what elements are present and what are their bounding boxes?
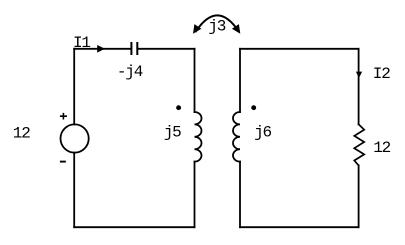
- coupling arc j3: [196, 15, 239, 31]
- wire: left loop top, source side to capacitor: [74, 48, 130, 50]
- plus sign of source: [60, 113, 67, 120]
- wire: left loop bottom: [74, 226, 194, 228]
- wire: right loop right side lower: [358, 165, 360, 227]
- dot polarity mark j5: [176, 105, 181, 110]
- wire: left loop right side lower: [194, 162, 196, 228]
- capacitor C plates (-j4): [130, 43, 132, 54]
- wire: right loop right side upper: [358, 49, 360, 125]
- arrowhead j3 right: [232, 24, 240, 34]
- arrowhead I1 current arrow: [97, 45, 105, 53]
- svg-text:I1: I1: [73, 34, 90, 52]
- wire: left loop left side lower: [73, 153, 75, 228]
- wire: right loop bottom: [240, 226, 359, 228]
- wire: left loop right side upper: [194, 49, 196, 112]
- resistor 12 zigzag: [354, 124, 364, 165]
- svg-text:-j4: -j4: [117, 63, 143, 81]
- svg-text:j3: j3: [208, 18, 225, 36]
- svg-text:j6: j6: [254, 124, 271, 142]
- wire: left loop left side upper: [73, 49, 75, 125]
- wire: right loop left side upper: [239, 49, 241, 112]
- wire: right loop top: [240, 48, 359, 50]
- inductor j6 coil: [233, 112, 240, 162]
- dot polarity mark j6: [251, 105, 256, 110]
- arrowhead j3 left: [193, 24, 201, 34]
- svg-text:12: 12: [13, 124, 30, 142]
- voltage source circle 12V: [61, 124, 89, 152]
- arrowhead I2 current arrow: [356, 72, 362, 78]
- svg-text:j5: j5: [164, 124, 181, 142]
- minus sign of source: [60, 161, 66, 163]
- wire: right loop left side lower: [239, 162, 241, 228]
- inductor j5 coil: [195, 112, 202, 162]
- wire: capacitor to left loop top-right corner: [138, 48, 194, 50]
- svg-text:I2: I2: [373, 65, 390, 83]
- svg-text:12: 12: [373, 139, 390, 157]
